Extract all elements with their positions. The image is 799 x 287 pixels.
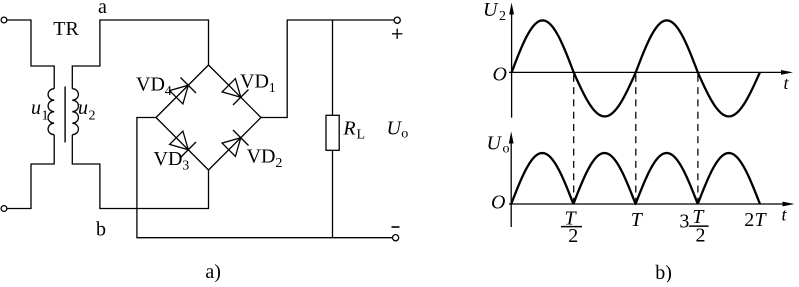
svg-text:2: 2 — [744, 209, 754, 231]
wire bridge left vertex to minus rail — [137, 118, 393, 238]
svg-text:t: t — [784, 73, 790, 93]
svg-text:b: b — [96, 218, 106, 240]
svg-text:VD: VD — [247, 146, 276, 168]
svg-text:2: 2 — [499, 9, 506, 24]
label TR — [53, 18, 79, 40]
svg-text:VD: VD — [136, 74, 165, 96]
waveform Uo rectified — [511, 153, 760, 204]
svg-text:U: U — [483, 0, 499, 21]
label O origin bottom — [491, 191, 505, 213]
axis U2 vertical — [509, 3, 514, 118]
svg-text:u: u — [31, 97, 41, 119]
svg-text:U: U — [387, 117, 403, 139]
diode VD3 — [170, 131, 196, 157]
label VD1 — [240, 71, 276, 97]
svg-text:2: 2 — [696, 225, 706, 247]
svg-text:4: 4 — [165, 84, 172, 99]
transformer core — [64, 87, 66, 143]
diode VD1 — [222, 79, 248, 105]
caption a) — [205, 261, 221, 283]
label VD2 — [247, 146, 283, 172]
label VD3 — [154, 148, 190, 174]
svg-text:2: 2 — [568, 225, 578, 247]
wire load branch top — [332, 20, 334, 115]
axis Uo vertical — [509, 132, 514, 228]
label T — [631, 209, 644, 231]
terminal primary top — [1, 17, 7, 23]
label U2 — [483, 0, 506, 24]
terminal primary bottom — [1, 206, 7, 212]
waveform u2 sine — [512, 20, 760, 116]
svg-text:T: T — [631, 209, 644, 231]
caption b) — [655, 262, 672, 284]
svg-text:t: t — [782, 205, 788, 225]
label VD4 — [136, 74, 172, 100]
svg-text:1: 1 — [269, 81, 276, 96]
svg-text:TR: TR — [53, 18, 79, 40]
svg-text:2: 2 — [89, 109, 96, 124]
wire secondary bottom lead to node b and bridge bottom vertex — [72, 135, 208, 209]
svg-text:3: 3 — [679, 211, 689, 233]
dashed line at T — [635, 75, 637, 203]
diode VD4 — [170, 78, 196, 104]
svg-text:U: U — [487, 133, 503, 155]
svg-text:a: a — [98, 0, 107, 18]
svg-text:1: 1 — [42, 109, 49, 124]
node a label — [98, 0, 107, 18]
svg-text:O: O — [491, 191, 505, 213]
svg-text:o: o — [503, 142, 510, 157]
label Uo output — [387, 117, 409, 141]
label Uo axis — [487, 133, 510, 157]
fraction bar T/2 — [561, 226, 582, 228]
fraction bar 3T/2 — [689, 225, 709, 227]
wire load branch bottom — [332, 150, 334, 237]
wire primary top lead — [4, 20, 54, 89]
label minus sign — [392, 226, 400, 228]
label RL — [342, 118, 365, 143]
svg-text:VD: VD — [154, 148, 183, 170]
svg-text:2: 2 — [275, 156, 282, 171]
svg-text:T: T — [755, 209, 768, 231]
svg-text:u: u — [78, 97, 88, 119]
wire bridge right vertex to plus rail — [261, 20, 394, 118]
svg-text:VD: VD — [240, 71, 269, 93]
label t top axis — [784, 73, 790, 93]
transformer primary winding u1 — [48, 89, 54, 135]
transformer secondary winding u2 — [72, 89, 78, 135]
label u2 — [78, 97, 96, 123]
label 2T — [744, 209, 767, 231]
dashed line at 3T/2 — [697, 75, 699, 203]
node b label — [96, 218, 106, 240]
wire primary bottom lead — [4, 135, 54, 209]
label 3T/2 — [679, 206, 705, 247]
bridge edge L-B — [156, 118, 209, 171]
resistor RL — [326, 115, 339, 150]
dashed line at T/2 — [573, 75, 575, 203]
terminal plus output — [394, 17, 400, 23]
axis U2 horizontal — [509, 70, 793, 75]
svg-text:a): a) — [205, 261, 221, 282]
bridge edge L-T — [156, 65, 209, 118]
bridge edge T-R — [209, 65, 262, 118]
svg-text:3: 3 — [182, 159, 189, 174]
label O origin top — [493, 63, 507, 85]
svg-text:L: L — [357, 128, 366, 143]
label T/2 fraction — [565, 207, 579, 247]
svg-text:O: O — [493, 63, 507, 85]
label plus sign — [392, 29, 402, 39]
terminal minus output — [393, 235, 399, 241]
svg-text:R: R — [342, 118, 355, 140]
wire secondary top lead to node a and bridge top vertex — [72, 20, 208, 89]
label u1 — [31, 97, 49, 123]
bridge edge B-R — [209, 118, 262, 171]
diode VD2 — [222, 130, 248, 156]
svg-text:b): b) — [655, 262, 672, 282]
axis Uo horizontal — [509, 202, 795, 207]
svg-text:o: o — [401, 127, 408, 142]
label t bottom axis — [782, 205, 788, 225]
